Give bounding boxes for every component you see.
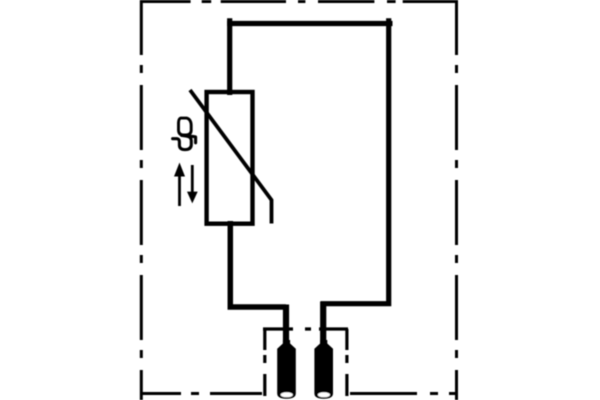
terminal pin 2 opening: [318, 392, 330, 397]
arrow down: [191, 165, 194, 195]
wire: top horizontal: [227, 21, 392, 26]
terminal pin 1 (left) body: [277, 340, 296, 399]
wire: left lead from thermistor bottom down and right: [230, 221, 286, 307]
wire: left pin lead (vertical into pin): [283, 305, 289, 345]
terminal pin 2 (right) body: [314, 340, 333, 399]
terminal pin 1 opening: [281, 392, 293, 397]
thermistor R1 diagonal stroke with foot: [190, 90, 272, 224]
thermistor R1 body: [207, 92, 253, 224]
temperature symbol (theta, drawn): [173, 118, 196, 150]
connector boundary box left side (dash-dot): [263, 329, 266, 396]
wire: right side vertical down and bottom horizontal to pin 2: [321, 18, 389, 303]
connector boundary box top (dash-dot): [263, 327, 348, 330]
enclosure border bottom-right segment (dash-dot): [350, 392, 458, 395]
wire: vertical from thermistor top (with corner nub): [227, 18, 232, 95]
enclosure border top (dash-dot): [140, 0, 458, 3]
enclosure border left (dash-dot): [140, 0, 143, 400]
arrow up: [178, 175, 181, 206]
wire: right pin lead (vertical into pin): [320, 302, 326, 345]
enclosure border bottom-left segment (dash-dot): [140, 392, 263, 395]
enclosure border right (dash-dot): [455, 0, 458, 400]
connector boundary box right side (dash-dot): [345, 329, 348, 396]
